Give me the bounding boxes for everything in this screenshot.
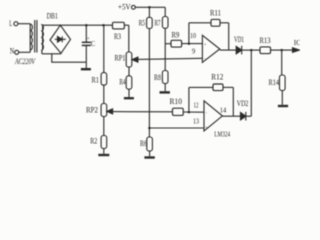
node R1 top junction (102, 24, 105, 27)
ground R4 (124, 97, 134, 99)
node R5 top junction (148, 6, 151, 9)
resistor R9 (171, 40, 182, 47)
resistor R6 (147, 137, 153, 151)
wire R5 top lead (148, 7, 150, 17)
svg-text:DB1: DB1 (47, 12, 58, 21)
ground R2 (98, 154, 109, 156)
svg-text:R2: R2 (90, 136, 97, 145)
wire U1a output (220, 49, 236, 51)
svg-text:LM324: LM324 (214, 130, 230, 138)
resistor R12 (189, 84, 233, 116)
transformer secondary winding (41, 25, 43, 54)
ground R6 (144, 156, 154, 158)
transformer primary winding (30, 24, 32, 53)
svg-text:R6: R6 (140, 139, 147, 148)
resistor R10 (173, 108, 205, 115)
resistor R4 (126, 76, 132, 89)
terminal N (15, 50, 31, 54)
wire feedback riser R11 (228, 23, 230, 50)
output arrow to IC (293, 48, 300, 53)
wire R8 to ground (164, 84, 166, 92)
svg-text:+: + (204, 41, 207, 46)
svg-text:L: L (9, 19, 12, 28)
wire R1 top lead (103, 25, 105, 72)
resistor R7 (162, 17, 168, 29)
svg-text:R8: R8 (154, 73, 161, 82)
resistor R3 (113, 22, 125, 29)
op-amp U1a (202, 35, 219, 62)
wire R14 riser (281, 50, 283, 75)
resistor R11 (189, 19, 229, 43)
svg-text:R9: R9 (172, 30, 180, 39)
wire R6 to ground (149, 151, 151, 156)
svg-text:R7: R7 (155, 18, 161, 27)
svg-text:13: 13 (193, 116, 199, 125)
svg-text:R12: R12 (211, 73, 223, 82)
potentiometer RP2 (101, 104, 172, 117)
op-amp U1b (204, 101, 222, 131)
wire R13 to output (271, 49, 293, 51)
svg-text:AC220V: AC220V (14, 57, 36, 66)
wire +5V rail (135, 6, 165, 8)
svg-text:+: + (87, 37, 90, 42)
wire RP2 to R2 (103, 117, 105, 136)
node feedback junction pin 10 (188, 42, 191, 45)
ground R14 (278, 105, 288, 107)
resistor R5 (147, 17, 153, 28)
resistor R2 (101, 136, 107, 149)
resistor R14 (280, 75, 286, 91)
node R12 riser junction (188, 111, 191, 114)
svg-text:9: 9 (192, 46, 196, 55)
wire U1b output (222, 115, 240, 117)
terminal +5V (132, 5, 136, 9)
diode VD1 (236, 46, 251, 55)
resistor R13 (260, 47, 271, 54)
wire R2 to ground (103, 149, 105, 154)
svg-text:RP2: RP2 (86, 105, 98, 114)
svg-text:14: 14 (220, 105, 227, 114)
wire rail corner down to RP1 (128, 25, 130, 52)
wire R7 column down to R8 (164, 28, 166, 70)
wire RP1 to R4 (128, 67, 130, 76)
svg-text:RP1: RP1 (115, 54, 126, 63)
svg-text:R4: R4 (119, 77, 125, 86)
svg-text:C: C (91, 39, 95, 48)
node VD2 riser junction (250, 49, 253, 52)
potentiometer RP1 (126, 52, 202, 67)
resistor R8 (162, 71, 168, 84)
diode VD2 (241, 112, 252, 121)
wire R14 to ground (281, 91, 283, 105)
wire R4 to ground (128, 89, 130, 97)
node cap top junction (85, 24, 88, 27)
bridge rectifier DB1 (50, 25, 71, 53)
wire top rail from transformer secondary through bridge top vertex to RP1 corner (43, 24, 129, 26)
svg-text:R3: R3 (114, 32, 121, 41)
svg-text:12: 12 (194, 100, 199, 109)
node pin13 junction (148, 127, 151, 130)
svg-text:R14: R14 (269, 78, 280, 87)
node R14 top junction (280, 49, 283, 52)
svg-text:R13: R13 (260, 36, 271, 45)
resistor R1 (101, 73, 107, 86)
wire R9 to pin 10 (182, 43, 203, 45)
wire to R13 (251, 49, 260, 51)
svg-text:R11: R11 (210, 9, 221, 18)
svg-text:10: 10 (190, 31, 196, 40)
wire pin 13 row (149, 127, 204, 129)
svg-text:R10: R10 (170, 97, 183, 106)
terminal L (14, 22, 30, 26)
svg-text:IC: IC (294, 39, 300, 47)
wire R9 left lead (165, 43, 171, 45)
wire VD2 riser (250, 50, 252, 116)
svg-text:VD1: VD1 (234, 35, 244, 44)
wire R5 column down to R6 (148, 29, 150, 138)
capacitor C (82, 25, 91, 62)
wire secondary bottom to bridge bottom vertex (42, 53, 61, 55)
ground main (81, 62, 91, 69)
svg-text:+5V: +5V (118, 3, 131, 12)
transformer core (35, 20, 37, 53)
svg-text:N: N (10, 46, 15, 55)
ground R8 (160, 91, 170, 93)
svg-text:R1: R1 (92, 75, 100, 84)
svg-text:R5: R5 (139, 18, 146, 27)
wire bottom ground rail (52, 54, 87, 62)
wire R7 top lead (164, 7, 166, 16)
svg-text:VD2: VD2 (237, 99, 249, 108)
wire R1 to RP2 (103, 85, 105, 103)
